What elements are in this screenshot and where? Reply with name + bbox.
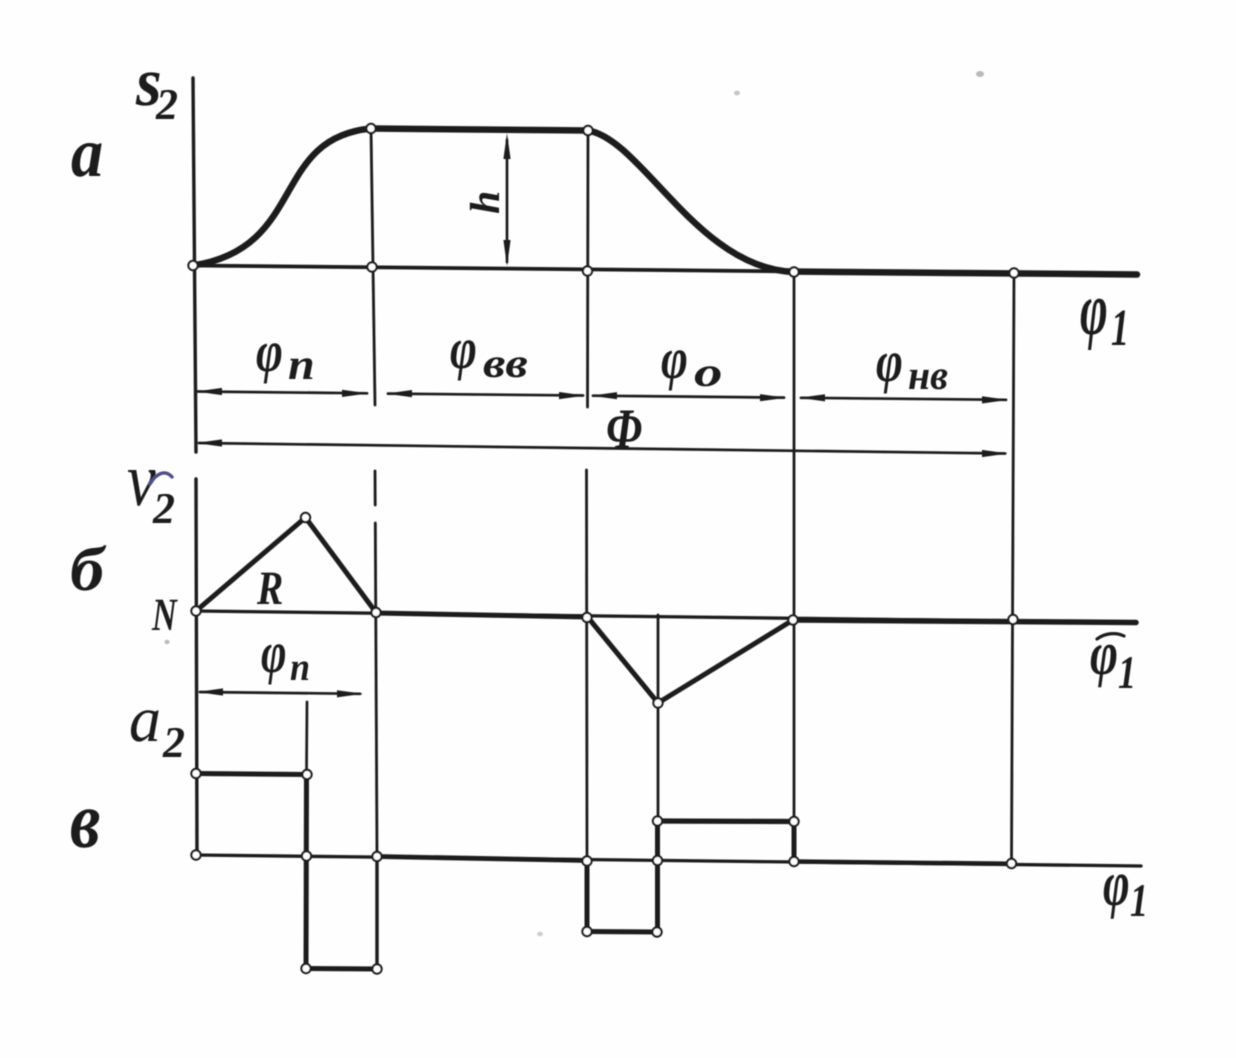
svg-text:п: п <box>290 645 310 689</box>
x-axis phi1 (plot v baseline thin) <box>196 855 1141 866</box>
svg-text:φ: φ <box>661 326 688 391</box>
svg-text:1: 1 <box>1130 874 1148 926</box>
velocity triangle rise phase <box>196 518 376 613</box>
displacement curve at zero level (thick right part) <box>788 272 1137 275</box>
svg-text:a: a <box>129 683 161 755</box>
node a2 pulse1 bottom left <box>301 964 310 973</box>
y-axis v2 / a2 (common left axis lower plots) <box>196 479 197 856</box>
svg-text:вв: вв <box>483 341 528 387</box>
node a2 pulse2 top right <box>789 817 798 826</box>
x-axis phi1 (plot b baseline thin) <box>196 611 1136 623</box>
node v baseline x=793 <box>788 615 797 624</box>
boundary vertical x=371 (end of rise) <box>371 129 375 406</box>
s-curve rise <box>193 129 371 266</box>
node baseline x=371 <box>367 262 376 271</box>
node cycle end baseline <box>1009 268 1018 277</box>
node a2 pulse1 top left <box>191 769 200 778</box>
node a baseline origin <box>191 850 200 859</box>
pulse1 top segment <box>196 774 307 775</box>
velocity zero segment (thick) 375-587 <box>375 613 588 617</box>
node v baseline x=376 <box>371 608 380 617</box>
boundary vertical x=588 (end of dwell) <box>586 131 589 408</box>
node a baseline x=587 <box>582 856 591 865</box>
node a2 pulse2 top left <box>653 816 662 825</box>
svg-text:нв: нв <box>908 353 948 399</box>
node v baseline x=1013 <box>1008 615 1017 624</box>
acceleration zero segment thick 377-587 <box>377 857 587 861</box>
pulse2 bottom segment <box>587 929 657 935</box>
pulse2 left edge x=587 <box>585 861 590 932</box>
x-axis phi1 (plot a baseline, thin left part) <box>193 266 800 272</box>
node velocity peak <box>301 513 310 522</box>
boundary vertical x=794 (end of fall) <box>793 272 796 861</box>
dimension phi_p arrow (plot b) <box>200 692 360 694</box>
pulse2 right edge x=794 <box>792 822 797 862</box>
node a baseline x=794 <box>789 857 798 866</box>
boundary vertical x=587 (lower) <box>585 470 588 861</box>
svg-text:2: 2 <box>152 484 175 533</box>
scanner speck 2 <box>734 91 740 96</box>
dimension phi_nv row line <box>801 398 1006 400</box>
node dwell end top <box>583 126 592 135</box>
node a baseline x=306 <box>302 851 311 860</box>
node fall end baseline <box>789 267 798 276</box>
node rise end top <box>366 124 375 133</box>
svg-text:п: п <box>288 339 315 389</box>
svg-text:б: б <box>70 535 106 604</box>
pulse2 top segment <box>658 818 795 824</box>
acceleration zero segment thick 794-1011 <box>794 862 1012 864</box>
scanner speck 4 <box>537 932 543 936</box>
svg-text:φ: φ <box>1103 848 1130 920</box>
node velocity valley <box>653 698 662 707</box>
node a2 pulse1 top right <box>302 770 311 779</box>
pulse1 falling edge x=306 <box>304 774 310 969</box>
dimension phi_o row line <box>593 396 784 398</box>
vertical through valley x=658 <box>657 615 660 821</box>
dimension phi_p row line <box>198 392 367 394</box>
stray pen stroke above phi1 (plot b) <box>1097 634 1124 639</box>
node a2 pulse2 bottom right <box>652 927 661 936</box>
node a baseline x=1011 <box>1007 859 1016 868</box>
node a2 pulse1 bottom right <box>372 964 381 973</box>
svg-text:Φ: Φ <box>606 399 642 462</box>
node v baseline x=587 <box>582 613 591 622</box>
dimension phi_vv row line <box>388 394 583 396</box>
svg-text:φ: φ <box>876 329 903 394</box>
node baseline x=588 <box>583 266 592 275</box>
s-curve fall <box>588 131 794 273</box>
svg-text:1: 1 <box>1111 299 1129 357</box>
pulse2 rising edge x=657 <box>655 821 660 932</box>
velocity triangle return phase <box>588 618 793 704</box>
svg-text:φ: φ <box>1080 267 1108 351</box>
svg-text:φ: φ <box>1090 619 1118 688</box>
boundary vertical x=375 (lower) <box>374 471 377 505</box>
svg-text:h: h <box>463 191 509 214</box>
scanner speck 1 <box>976 71 984 77</box>
svg-text:о: о <box>694 350 723 396</box>
svg-text:2: 2 <box>162 718 185 767</box>
pulse1 bottom segment <box>306 966 377 972</box>
h dimension arrow <box>506 140 509 262</box>
svg-text:в: в <box>70 777 100 865</box>
svg-text:a: a <box>71 115 103 192</box>
svg-text:φ: φ <box>261 620 287 685</box>
dwell plateau <box>371 129 588 131</box>
svg-text:2: 2 <box>155 80 178 129</box>
pulse1 right edge x=377 <box>375 857 378 970</box>
vertical line below phi_p arrow x=306 <box>305 702 308 774</box>
node a baseline x=657 <box>653 856 662 865</box>
svg-text:N: N <box>151 589 178 640</box>
svg-text:1: 1 <box>1118 646 1136 698</box>
node v-plot origin <box>191 606 200 615</box>
velocity zero segment (thick) 793-end <box>792 620 1136 623</box>
svg-text:φ: φ <box>450 316 477 381</box>
dimension Phi (full cycle) row line <box>199 443 1005 454</box>
svg-text:R: R <box>256 562 283 615</box>
boundary vertical x=1014 (cycle end) <box>1012 273 1015 861</box>
node a2 pulse2 bottom left <box>582 927 591 936</box>
svg-text:φ: φ <box>256 319 283 384</box>
y-axis s2 <box>193 78 196 452</box>
scanner speck 3 <box>164 640 169 644</box>
node plot a origin <box>188 261 197 270</box>
node a baseline x=377 <box>372 852 381 861</box>
